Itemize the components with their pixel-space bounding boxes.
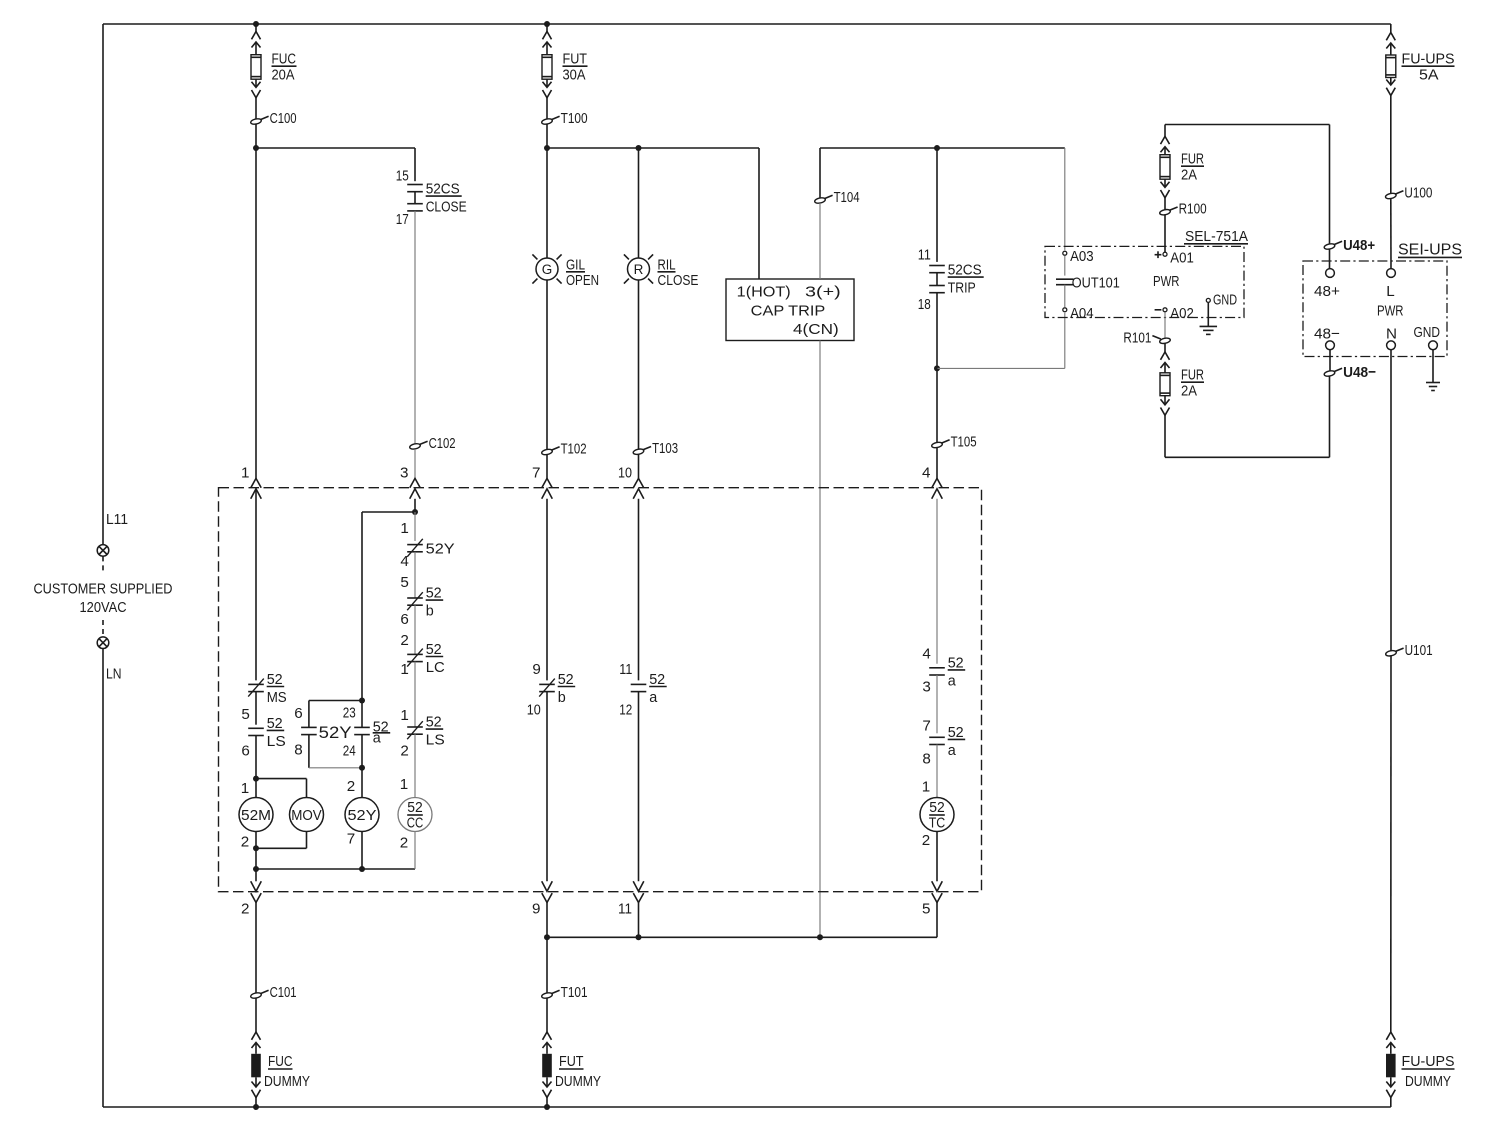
svg-text:FUR: FUR xyxy=(1181,151,1204,168)
svg-text:CAP TRIP: CAP TRIP xyxy=(751,303,826,320)
wire 52/LS to coil 52/CC xyxy=(414,734,416,797)
wire exit 9 to return bus xyxy=(546,903,548,938)
contact 52CS CLOSE pins 15-17 xyxy=(407,184,423,186)
svg-text:PWR: PWR xyxy=(1153,273,1180,290)
wire 52/a to coil 52/TC xyxy=(936,745,938,798)
svg-text:1: 1 xyxy=(400,661,408,678)
wire branch to 52Y coil column xyxy=(362,511,415,513)
node bottom bus FUC xyxy=(253,1104,259,1110)
contact 52 a pins 11-12 xyxy=(631,683,647,685)
wire entry 7 to 52/b xyxy=(546,499,548,681)
terminal U101 xyxy=(1385,650,1397,657)
svg-text:PWR: PWR xyxy=(1377,303,1404,320)
contact 52 a pins 7-8 xyxy=(929,736,945,738)
svg-text:CLOSE: CLOSE xyxy=(426,199,467,216)
node 52Y rejoin xyxy=(359,765,365,771)
pin N xyxy=(1387,341,1396,350)
svg-text:3: 3 xyxy=(922,679,930,696)
coil 52 TC pins 1-2 xyxy=(920,798,954,832)
svg-text:T103: T103 xyxy=(652,440,678,457)
wire coil 52Y to in-box bus xyxy=(361,832,363,870)
pin GND (SEI-UPS) and ground xyxy=(1429,341,1438,350)
svg-text:OUT101: OUT101 xyxy=(1072,274,1120,291)
wire entry 3 to chain node xyxy=(414,499,416,512)
svg-text:4: 4 xyxy=(922,465,930,482)
svg-text:1: 1 xyxy=(400,707,408,724)
svg-text:23: 23 xyxy=(343,705,356,722)
wire U48+ to pin 48+ xyxy=(1329,249,1331,268)
wire exit 2 to C101 xyxy=(255,903,257,994)
wire lamp bus xyxy=(547,147,759,149)
svg-text:1: 1 xyxy=(400,520,408,537)
svg-text:N: N xyxy=(1386,326,1397,343)
svg-text:MOV: MOV xyxy=(291,807,322,824)
svg-text:52: 52 xyxy=(948,654,964,671)
contact 52Y pins 6-8 xyxy=(301,726,317,728)
svg-text:4(CN): 4(CN) xyxy=(793,321,839,338)
svg-text:52Y: 52Y xyxy=(348,807,377,824)
pin L xyxy=(1387,269,1396,278)
wire FUT column upper xyxy=(546,24,548,32)
lamp RIL (R) CLOSE xyxy=(628,258,650,280)
wire T105 to operation box entry 4 xyxy=(936,448,938,479)
svg-text:T101: T101 xyxy=(561,984,588,1001)
wire supply to FUR upper xyxy=(1164,125,1166,137)
svg-text:2A: 2A xyxy=(1181,383,1198,400)
node trip bus / 52CS TRIP tap xyxy=(934,145,940,151)
wire chain node down xyxy=(414,512,416,541)
wire GIL to T102 xyxy=(546,280,548,450)
wire 48V+ supply bus xyxy=(1165,124,1330,126)
exit 2 (close return) xyxy=(251,881,262,891)
wire exit 11 to return bus xyxy=(638,903,640,938)
wire U48- to 48V- return xyxy=(1329,376,1331,457)
svg-text:52: 52 xyxy=(426,714,442,731)
wire entry 4 to 52/a xyxy=(936,499,938,664)
svg-text:2A: 2A xyxy=(1181,167,1198,184)
svg-text:b: b xyxy=(426,603,434,620)
wire pin A02 to R101 xyxy=(1164,312,1166,338)
node MOV rejoin xyxy=(253,845,259,851)
svg-text:3(+): 3(+) xyxy=(805,284,841,301)
terminal C100 xyxy=(250,118,262,125)
fuse FUR 2A (upper) xyxy=(1161,136,1170,144)
wire FUC column upper xyxy=(255,24,257,32)
wire exit 2 xyxy=(255,869,257,881)
wire coil 52/TC to exit 5 xyxy=(936,832,938,882)
svg-text:4: 4 xyxy=(922,646,930,663)
terminal T102 xyxy=(541,448,553,455)
wire FUT column to T101 xyxy=(546,937,548,993)
wire MOV branch bottom xyxy=(306,832,308,849)
exit 5 (trip return) xyxy=(932,881,943,891)
node 52M/MOV split xyxy=(253,776,259,782)
svg-text:OPEN: OPEN xyxy=(566,272,599,289)
svg-text:FU-UPS: FU-UPS xyxy=(1402,1053,1455,1070)
pin 48+ xyxy=(1326,269,1335,278)
svg-text:GND: GND xyxy=(1414,324,1441,341)
node top bus / FUT tap xyxy=(544,21,550,27)
svg-text:52: 52 xyxy=(929,799,945,816)
terminal U48- xyxy=(1324,370,1336,377)
wire left supply LN vertical xyxy=(102,649,104,1108)
wire entry 10 to 52/a xyxy=(638,499,640,681)
box SEI-UPS dash-dot border xyxy=(1303,261,1447,357)
terminal U48+ xyxy=(1329,125,1331,245)
entry 10 (lamp RIL) xyxy=(633,478,643,487)
svg-text:SEL-751A: SEL-751A xyxy=(1185,228,1249,245)
svg-text:30A: 30A xyxy=(563,67,587,84)
svg-text:52: 52 xyxy=(948,724,964,741)
wire junction to OUT101 loop xyxy=(937,367,1065,369)
contact 52 LS pins 5-6 xyxy=(248,727,264,729)
svg-text:FUC: FUC xyxy=(272,51,297,68)
wire U101 down to FU-UPS dummy xyxy=(1390,656,1392,1032)
svg-text:A04: A04 xyxy=(1070,305,1094,322)
wire U100 to pin L xyxy=(1390,199,1392,269)
dashed wire customer supply lower xyxy=(102,620,104,637)
wire OUT101 top from trip bus xyxy=(1064,148,1066,250)
svg-text:48+: 48+ xyxy=(1314,283,1340,300)
terminal R101 xyxy=(1159,337,1171,344)
svg-text:48−: 48− xyxy=(1314,326,1340,343)
wire C102 to operation box entry 3 xyxy=(414,449,416,479)
wire bottom bus xyxy=(103,1106,1391,1108)
svg-text:120VAC: 120VAC xyxy=(80,599,127,616)
wire trip bus to T104 xyxy=(819,148,821,198)
coil 52Y pins 2-7 xyxy=(345,798,379,832)
svg-text:b: b xyxy=(558,689,566,706)
svg-text:GIL: GIL xyxy=(566,256,585,273)
wire to coil 52Y xyxy=(361,768,363,798)
svg-text:T104: T104 xyxy=(834,189,860,206)
contact 52 LC pins 2-1 (NC) xyxy=(407,653,423,655)
svg-text:52Y: 52Y xyxy=(426,541,455,558)
entry 3 (close signal) xyxy=(410,478,420,487)
svg-text:R: R xyxy=(634,262,644,277)
svg-text:52: 52 xyxy=(558,671,574,688)
wire 52/LS to MOV node xyxy=(255,736,257,779)
svg-text:52: 52 xyxy=(426,585,442,602)
svg-text:2: 2 xyxy=(241,901,249,918)
svg-text:11: 11 xyxy=(618,901,632,918)
svg-text:1: 1 xyxy=(241,780,249,797)
box SEL-751A dash-dot border xyxy=(1045,246,1244,317)
wire CAP TRIP pin 4 return to bottom bus xyxy=(819,341,821,938)
svg-text:TRIP: TRIP xyxy=(948,280,976,297)
wire FUT junction down to lamp GIL xyxy=(546,148,548,258)
wire branch to 52CS CLOSE xyxy=(256,147,415,149)
wire 52Y parallel rejoin xyxy=(308,735,310,768)
svg-text:9: 9 xyxy=(532,661,540,678)
terminal T103 xyxy=(633,448,645,455)
wire FUT dummy to bottom bus xyxy=(546,1098,548,1108)
svg-text:CUSTOMER SUPPLIED: CUSTOMER SUPPLIED xyxy=(34,581,173,598)
node 52Y parallel split xyxy=(359,698,365,704)
pin A03 xyxy=(1063,251,1067,255)
node lamp bus / RIL tap xyxy=(636,145,642,151)
svg-text:2: 2 xyxy=(400,835,408,852)
svg-text:MS: MS xyxy=(267,689,287,706)
svg-text:7: 7 xyxy=(347,831,355,848)
lamp GIL (G) OPEN xyxy=(536,258,558,280)
svg-text:5: 5 xyxy=(922,901,930,918)
wire FU-UPS dummy to bottom bus xyxy=(1390,1098,1392,1108)
wire FUT to T100 xyxy=(546,98,548,119)
svg-text:U101: U101 xyxy=(1405,642,1433,659)
svg-text:12: 12 xyxy=(619,702,632,719)
svg-text:20A: 20A xyxy=(272,67,296,84)
svg-text:T100: T100 xyxy=(561,110,588,127)
wire left supply L11 vertical xyxy=(102,24,104,545)
contact 52 a pins 23-24 xyxy=(354,726,370,728)
wire 52/a to exit 11 xyxy=(638,692,640,882)
svg-text:L11: L11 xyxy=(106,511,128,528)
svg-text:17: 17 xyxy=(396,211,409,228)
svg-text:24: 24 xyxy=(343,743,356,760)
terminal R100 xyxy=(1159,209,1171,216)
svg-text:LC: LC xyxy=(426,659,445,676)
svg-text:52CS: 52CS xyxy=(948,262,982,279)
wire 52Y parallel right branch xyxy=(361,701,363,728)
svg-text:15: 15 xyxy=(396,168,409,185)
node in-box bus 52Y tap xyxy=(359,866,365,872)
contact 52 b pins 5-6 (NC) xyxy=(407,597,423,599)
svg-text:C100: C100 xyxy=(270,110,297,127)
exit 9 xyxy=(542,881,553,891)
node return bus FUT xyxy=(544,934,550,940)
fuse FUR 2A (lower) xyxy=(1161,352,1170,360)
terminal C101 xyxy=(250,992,262,999)
svg-text:FU-UPS: FU-UPS xyxy=(1402,51,1455,68)
fuse FUC 20A xyxy=(252,32,261,40)
wire MOV branch top xyxy=(256,778,307,780)
wire between 52/a contacts xyxy=(936,675,938,733)
exit 11 xyxy=(633,881,644,891)
wire T102 to operation box entry 7 xyxy=(546,455,548,479)
svg-text:2: 2 xyxy=(922,832,930,849)
svg-text:LS: LS xyxy=(267,733,286,750)
contact 52Y pins 1-4 (NC) xyxy=(407,544,423,546)
svg-text:1(HOT): 1(HOT) xyxy=(737,284,791,301)
svg-text:U100: U100 xyxy=(1404,185,1432,202)
svg-text:52: 52 xyxy=(267,671,283,688)
svg-text:TC: TC xyxy=(929,815,946,832)
svg-text:3: 3 xyxy=(400,465,408,482)
svg-text:10: 10 xyxy=(618,465,632,482)
svg-text:8: 8 xyxy=(294,742,302,759)
coil 52M pins 1-2 xyxy=(255,779,257,798)
svg-text:A01: A01 xyxy=(1170,250,1194,267)
svg-text:11: 11 xyxy=(619,661,632,678)
svg-text:9: 9 xyxy=(532,901,540,918)
customer connection symbol (LN) xyxy=(97,637,109,649)
svg-text:1: 1 xyxy=(241,465,249,482)
wire trip return bus xyxy=(547,936,937,938)
wire FUC to C100 xyxy=(255,98,257,119)
svg-text:T102: T102 xyxy=(561,441,587,458)
svg-text:52M: 52M xyxy=(241,807,271,824)
wire exit 5 to return bus xyxy=(936,903,938,938)
svg-text:C101: C101 xyxy=(270,984,297,1001)
wire 52CS TRIP to junction xyxy=(936,293,938,369)
svg-text:a: a xyxy=(373,730,382,747)
dashed wire customer supply upper xyxy=(102,556,104,572)
svg-text:DUMMY: DUMMY xyxy=(264,1073,310,1090)
pin A01 (+) xyxy=(1163,252,1167,256)
svg-text:U48−: U48− xyxy=(1343,364,1376,381)
wire T101 to FUT dummy xyxy=(546,998,548,1032)
pin A04 xyxy=(1063,308,1067,312)
svg-text:1: 1 xyxy=(400,776,408,793)
wire trip bus xyxy=(820,147,1065,149)
svg-text:RIL: RIL xyxy=(658,256,676,273)
svg-text:a: a xyxy=(649,689,658,706)
wire FUR lower to 48V- return xyxy=(1164,415,1166,457)
contact 52 a pins 4-3 xyxy=(929,667,945,669)
svg-text:52: 52 xyxy=(649,671,665,688)
contact 52 LS pins 1-2 (NC) xyxy=(407,726,423,728)
svg-text:6: 6 xyxy=(241,743,249,760)
svg-text:FUC: FUC xyxy=(268,1053,293,1070)
svg-text:R100: R100 xyxy=(1179,201,1207,218)
wire R100 to pin A01 xyxy=(1164,215,1166,252)
wire T100 to junction xyxy=(546,124,548,148)
svg-text:5: 5 xyxy=(241,706,249,723)
node close-circuit junction xyxy=(253,145,259,151)
wire RIL to T103 xyxy=(638,280,640,449)
svg-text:a: a xyxy=(948,672,957,689)
wire C101 to FUC dummy xyxy=(255,998,257,1032)
svg-text:8: 8 xyxy=(922,751,930,768)
wire C100 to junction xyxy=(255,124,257,148)
wire 52CS CLOSE to C102 xyxy=(414,211,416,444)
svg-text:52: 52 xyxy=(267,715,283,732)
svg-text:6: 6 xyxy=(294,705,302,722)
wire R101 to FUR lower xyxy=(1164,343,1166,352)
box circuit breaker operation (dashed) xyxy=(219,488,982,892)
entry 4 (trip) xyxy=(932,478,942,487)
node lamp bus tap (FUT) xyxy=(544,145,550,151)
svg-text:6: 6 xyxy=(400,611,408,628)
svg-text:4: 4 xyxy=(400,553,408,570)
pin 48- xyxy=(1326,341,1335,350)
svg-text:2: 2 xyxy=(400,632,408,649)
contact 52 b pins 9-10 (NC) xyxy=(539,683,555,685)
svg-text:2: 2 xyxy=(400,743,408,760)
wire 52Y parallel left branch xyxy=(309,700,362,702)
terminal C102 xyxy=(409,443,421,450)
svg-text:LN: LN xyxy=(106,666,122,683)
wire 52/b to exit 9 xyxy=(546,692,548,882)
svg-text:1: 1 xyxy=(922,779,930,796)
svg-text:DUMMY: DUMMY xyxy=(1405,1073,1451,1090)
svg-text:U48+: U48+ xyxy=(1343,237,1375,254)
node trip junction xyxy=(934,365,940,371)
wire FU-UPS column top xyxy=(1390,24,1392,33)
fuse FUC DUMMY xyxy=(252,1032,261,1040)
pin A02 (-) xyxy=(1163,308,1167,312)
wire in-box bus xyxy=(256,868,415,870)
svg-text:FUT: FUT xyxy=(559,1053,584,1070)
wire trip tap down xyxy=(936,148,938,262)
entry 1 (close supply) xyxy=(251,478,261,487)
wire RIL column upper xyxy=(638,148,640,258)
terminal T105 xyxy=(931,441,943,448)
svg-text:5A: 5A xyxy=(1419,67,1439,84)
svg-text:A03: A03 xyxy=(1070,248,1094,265)
node return bus CAP TRIP xyxy=(817,934,823,940)
svg-text:CC: CC xyxy=(407,815,424,832)
wire top bus xyxy=(103,23,1391,25)
svg-text:SEI-UPS: SEI-UPS xyxy=(1398,241,1462,258)
contact OUT101 xyxy=(1064,256,1066,276)
svg-text:18: 18 xyxy=(918,296,931,313)
svg-text:2: 2 xyxy=(347,778,355,795)
wire FU-UPS to U100 xyxy=(1390,96,1392,194)
fuse FU-UPS DUMMY xyxy=(1386,1032,1395,1040)
node return bus RIL xyxy=(636,934,642,940)
wire coil 52/CC to in-box bus xyxy=(414,832,416,870)
wire 52/MS to 52/LS xyxy=(255,692,257,725)
terminal U100 xyxy=(1385,192,1397,199)
terminal T104 xyxy=(814,197,826,204)
svg-text:LS: LS xyxy=(426,732,445,749)
wire pin N to U101 xyxy=(1390,350,1392,651)
node in-box bus left xyxy=(253,866,259,872)
wire FUC dummy to bottom bus xyxy=(255,1098,257,1108)
svg-text:52: 52 xyxy=(426,641,442,658)
coil MOV xyxy=(290,798,324,832)
fuse FU-UPS 5A xyxy=(1386,33,1395,41)
pin GND (SEL-751A) and ground xyxy=(1206,298,1210,302)
fuse FUT 30A xyxy=(543,32,552,40)
node chain split xyxy=(412,509,418,515)
svg-text:R101: R101 xyxy=(1123,329,1151,346)
terminal T100 xyxy=(541,118,553,125)
entry 7 (lamp GIL) xyxy=(542,478,552,487)
svg-text:5: 5 xyxy=(400,574,408,591)
terminal T101 xyxy=(541,992,553,999)
svg-text:2: 2 xyxy=(241,834,249,851)
svg-text:7: 7 xyxy=(922,718,930,735)
node top bus / FUC tap xyxy=(253,21,259,27)
contact 52CS TRIP pins 11-18 xyxy=(929,265,945,267)
box CAP TRIP xyxy=(726,279,854,341)
svg-text:7: 7 xyxy=(532,465,540,482)
fuse FUT DUMMY xyxy=(543,1032,552,1040)
svg-text:52Y: 52Y xyxy=(319,724,352,742)
wire T104 to CAP TRIP pin 3 xyxy=(819,203,821,279)
contact 52 MS (NC) xyxy=(248,683,264,685)
customer connection symbol (L11) xyxy=(97,545,109,557)
wire lamp bus to CAP TRIP pin 1 xyxy=(758,148,760,279)
coil 52 CC pins 1-2 xyxy=(398,798,432,832)
svg-text:DUMMY: DUMMY xyxy=(555,1073,601,1090)
wire junction down to operation box entry 1 xyxy=(255,148,257,478)
svg-text:a: a xyxy=(948,742,957,759)
svg-text:C102: C102 xyxy=(429,435,456,452)
svg-text:T105: T105 xyxy=(951,434,977,451)
svg-text:GND: GND xyxy=(1213,291,1237,308)
wire T103 to operation box entry 10 xyxy=(638,454,640,478)
svg-text:CLOSE: CLOSE xyxy=(658,272,699,289)
svg-text:FUT: FUT xyxy=(563,51,588,68)
svg-text:11: 11 xyxy=(918,246,931,263)
svg-text:A02: A02 xyxy=(1170,305,1194,322)
svg-text:FUR: FUR xyxy=(1181,367,1204,384)
svg-text:52CS: 52CS xyxy=(426,181,460,198)
